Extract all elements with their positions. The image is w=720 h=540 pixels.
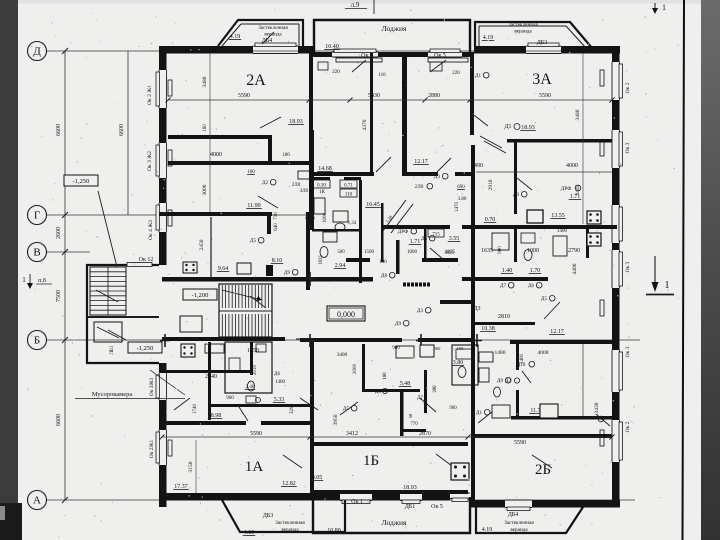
- svg-text:160: 160: [203, 124, 208, 132]
- svg-text:1: 1: [22, 276, 26, 284]
- svg-text:1480: 1480: [495, 350, 506, 356]
- svg-text:Д10: Д10: [517, 362, 526, 368]
- svg-text:ЗЛ0: ЗЛ0: [300, 189, 309, 194]
- svg-text:Д1: Д1: [475, 73, 482, 79]
- svg-text:710: 710: [274, 212, 279, 220]
- svg-text:веранда: веранда: [510, 527, 528, 533]
- svg-text:3430: 3430: [594, 402, 600, 413]
- svg-text:3480: 3480: [575, 109, 581, 120]
- svg-text:Д3: Д3: [473, 306, 480, 312]
- svg-text:2Б: 2Б: [535, 462, 551, 478]
- svg-text:Застекленная: Застекленная: [258, 25, 288, 31]
- svg-text:3480: 3480: [202, 76, 208, 87]
- svg-text:Застекленная: Застекленная: [504, 520, 534, 526]
- svg-text:100: 100: [379, 260, 387, 265]
- svg-text:50: 50: [408, 413, 413, 418]
- svg-text:1000: 1000: [407, 250, 418, 255]
- svg-text:7500: 7500: [56, 290, 62, 302]
- svg-text:Д6: Д6: [528, 283, 535, 289]
- svg-text:220: 220: [332, 70, 340, 75]
- svg-text:2810: 2810: [498, 314, 510, 320]
- svg-text:ДБ4: ДБ4: [508, 512, 519, 518]
- svg-text:6600: 6600: [56, 124, 62, 136]
- svg-text:веранда: веранда: [264, 32, 282, 38]
- svg-text:-1,200: -1,200: [192, 292, 209, 299]
- svg-text:0.30: 0.30: [317, 184, 326, 189]
- svg-text:4000: 4000: [210, 152, 222, 158]
- svg-text:ДБ4: ДБ4: [262, 38, 273, 44]
- svg-text:Ок 2 Ж1: Ок 2 Ж1: [147, 85, 153, 105]
- svg-text:Д8: Д8: [381, 273, 388, 279]
- svg-text:Д1: Д1: [504, 124, 511, 130]
- svg-text:105: 105: [457, 346, 465, 351]
- svg-text:200: 200: [433, 385, 438, 393]
- svg-text:4370: 4370: [362, 119, 368, 130]
- svg-text:В: В: [33, 247, 40, 259]
- svg-text:3А: 3А: [532, 71, 552, 88]
- svg-text:Д9: Д9: [395, 321, 402, 327]
- svg-text:веранда: веранда: [281, 527, 299, 533]
- svg-text:500: 500: [337, 250, 345, 255]
- svg-text:2Л0: 2Л0: [292, 183, 301, 188]
- svg-text:3950: 3950: [333, 414, 339, 425]
- svg-text:ДБ1: ДБ1: [405, 504, 416, 510]
- svg-text:1: 1: [662, 3, 666, 12]
- svg-text:Д5: Д5: [541, 296, 548, 302]
- svg-text:2880: 2880: [428, 93, 440, 99]
- svg-text:Застекленная: Застекленная: [508, 22, 538, 28]
- svg-text:2450: 2450: [199, 239, 205, 250]
- svg-text:1490: 1490: [471, 163, 483, 169]
- svg-text:Г: Г: [34, 210, 40, 222]
- svg-text:Мусорокамера: Мусорокамера: [92, 391, 133, 398]
- svg-text:1: 1: [665, 280, 670, 291]
- svg-text:А: А: [33, 495, 41, 507]
- svg-text:Д: Д: [33, 46, 41, 58]
- svg-text:Ок 5: Ок 5: [431, 504, 443, 510]
- svg-text:Д9: Д9: [284, 270, 291, 276]
- svg-text:ДБ3: ДБ3: [263, 513, 274, 519]
- svg-text:2600: 2600: [56, 227, 62, 239]
- svg-text:180: 180: [282, 153, 290, 158]
- svg-text:Ок 2Ж1: Ок 2Ж1: [149, 440, 155, 459]
- svg-text:Ок 3 Ж2: Ок 3 Ж2: [147, 151, 153, 171]
- svg-text:4000: 4000: [566, 163, 578, 169]
- svg-text:5590: 5590: [539, 93, 551, 99]
- svg-text:Застекленная: Застекленная: [275, 520, 305, 526]
- svg-text:2240: 2240: [205, 374, 217, 380]
- svg-text:3400: 3400: [337, 352, 348, 358]
- svg-text:Д3: Д3: [375, 390, 381, 395]
- svg-text:ЛБ2: ЛБ2: [410, 53, 421, 59]
- svg-text:Д6: Д6: [274, 372, 280, 377]
- svg-text:Ок 2: Ок 2: [625, 421, 631, 432]
- svg-text:Ок 1: Ок 1: [351, 499, 363, 505]
- svg-text:Ок 2: Ок 2: [625, 82, 631, 93]
- svg-text:ЛБ1: ЛБ1: [110, 345, 115, 354]
- svg-text:2000: 2000: [353, 364, 358, 375]
- svg-text:Д3: Д3: [417, 308, 424, 314]
- svg-text:Ок 4 Ж3: Ок 4 Ж3: [148, 220, 154, 240]
- svg-text:Ок 3: Ок 3: [625, 346, 631, 357]
- svg-text:Лоджия: Лоджия: [382, 518, 407, 527]
- svg-text:715: 715: [432, 233, 440, 238]
- svg-text:060: 060: [434, 346, 442, 351]
- svg-text:6600: 6600: [119, 124, 125, 136]
- svg-text:0,000: 0,000: [337, 310, 355, 319]
- svg-text:5590: 5590: [514, 440, 526, 446]
- svg-text:3290: 3290: [290, 404, 295, 415]
- svg-text:веранда: веранда: [514, 29, 532, 35]
- svg-text:1400: 1400: [275, 380, 286, 385]
- svg-text:л.9: л.9: [351, 1, 360, 9]
- svg-text:960: 960: [226, 396, 234, 401]
- svg-text:180: 180: [383, 372, 388, 380]
- svg-text:640: 640: [274, 223, 279, 231]
- svg-text:1Б: 1Б: [363, 453, 379, 469]
- svg-text:ДРФ: ДРФ: [398, 229, 408, 235]
- svg-text:Д1: Д1: [476, 410, 483, 416]
- svg-text:Д3: Д3: [434, 174, 441, 180]
- svg-text:п.8: п.8: [38, 278, 46, 284]
- svg-text:Ок 3: Ок 3: [625, 261, 631, 272]
- svg-text:ДБ3: ДБ3: [537, 40, 548, 46]
- svg-text:Д9: Д9: [497, 378, 504, 384]
- svg-text:Ок 3: Ок 3: [625, 142, 631, 153]
- svg-text:220: 220: [452, 71, 460, 76]
- svg-text:5590: 5590: [238, 93, 250, 99]
- svg-text:110: 110: [378, 73, 386, 78]
- svg-text:-1,250: -1,250: [73, 178, 90, 185]
- svg-text:2790: 2790: [568, 248, 580, 254]
- svg-text:1К: 1К: [319, 190, 326, 195]
- svg-text:1740: 1740: [193, 404, 198, 415]
- svg-text:900: 900: [449, 406, 457, 411]
- svg-text:3412: 3412: [346, 431, 358, 437]
- svg-text:2Л0: 2Л0: [415, 184, 424, 190]
- svg-text:3.80: 3.80: [458, 197, 467, 202]
- svg-text:4000: 4000: [538, 350, 549, 356]
- svg-text:110: 110: [345, 193, 353, 198]
- svg-text:Лоджия: Лоджия: [382, 24, 407, 33]
- svg-text:1635: 1635: [481, 248, 493, 254]
- svg-text:Д5: Д5: [421, 236, 428, 242]
- svg-text:Ок 3Ж3: Ок 3Ж3: [149, 378, 155, 397]
- svg-text:3000: 3000: [202, 184, 208, 195]
- svg-text:-1,250: -1,250: [137, 345, 154, 352]
- svg-text:1А: 1А: [245, 459, 264, 475]
- svg-text:2А: 2А: [246, 72, 266, 89]
- svg-text:0.71: 0.71: [344, 184, 353, 189]
- svg-text:2910: 2910: [488, 179, 494, 190]
- svg-text:1400: 1400: [557, 229, 568, 234]
- svg-text:5590: 5590: [250, 431, 262, 437]
- svg-text:Д5: Д5: [250, 238, 257, 244]
- svg-text:Д7: Д7: [500, 283, 507, 289]
- svg-text:1835: 1835: [444, 251, 455, 256]
- svg-text:Д3: Д3: [513, 192, 520, 198]
- svg-text:5430: 5430: [368, 93, 380, 99]
- svg-text:6600: 6600: [56, 414, 62, 426]
- svg-text:Д2: Д2: [262, 180, 269, 186]
- svg-text:2010: 2010: [253, 365, 258, 376]
- svg-text:770: 770: [410, 422, 418, 427]
- svg-text:3150: 3150: [188, 461, 194, 472]
- svg-text:1250: 1250: [247, 348, 259, 354]
- svg-text:Б: Б: [34, 335, 40, 347]
- svg-text:1500: 1500: [364, 250, 375, 255]
- svg-text:1470: 1470: [455, 202, 460, 213]
- svg-text:1,34: 1,34: [348, 221, 357, 226]
- svg-text:4400: 4400: [572, 263, 578, 274]
- svg-text:ДРФ: ДРФ: [561, 186, 571, 192]
